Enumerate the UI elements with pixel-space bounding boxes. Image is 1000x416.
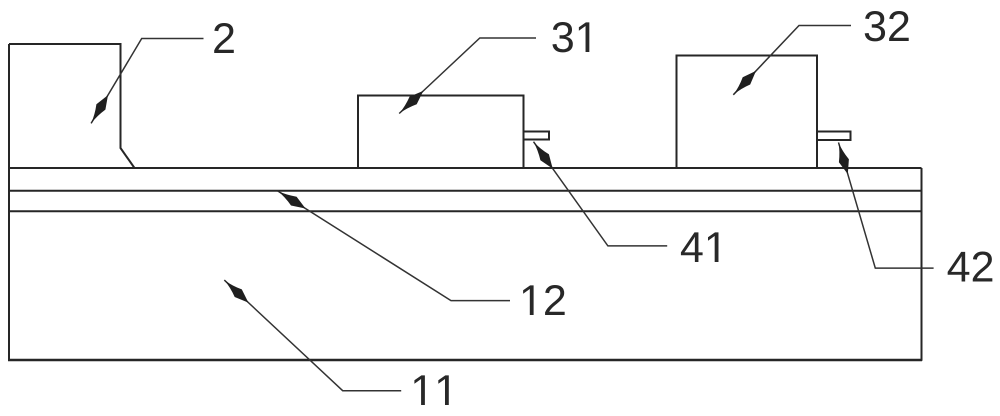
- arrowhead 42: [839, 142, 849, 174]
- tab 42 (electrode foot on right side of block 32): [817, 132, 851, 141]
- arrowhead 32: [733, 71, 756, 95]
- label 41: [681, 232, 703, 262]
- label 31: [552, 22, 572, 52]
- layer 12 middle boundary line: [9, 190, 922, 192]
- arrowhead 41: [534, 142, 553, 169]
- label 12: [523, 285, 533, 315]
- arrowhead 11: [224, 280, 248, 303]
- leader line 32: [733, 26, 851, 95]
- leader line 31: [399, 38, 536, 114]
- leader line 42: [839, 142, 934, 268]
- leader line 2: [91, 39, 203, 124]
- arrowhead 31: [399, 91, 423, 114]
- block 32: [677, 56, 818, 169]
- top surface line of layer stack: [9, 167, 922, 169]
- label 32: [865, 11, 885, 41]
- arrowhead 12: [278, 191, 306, 209]
- substrate right edge: [921, 168, 923, 361]
- substrate left edge: [8, 44, 10, 361]
- layer 12 lower boundary line (top of substrate 11): [9, 210, 922, 212]
- label 2: [214, 23, 234, 53]
- block 2 (left raised layer): [9, 44, 135, 168]
- leader line 11: [224, 280, 401, 391]
- tab 41 (electrode foot on right side of block 31): [524, 132, 550, 140]
- label 11: [414, 375, 424, 405]
- block 31: [358, 96, 524, 169]
- label 42: [948, 252, 970, 282]
- substrate bottom edge: [8, 359, 922, 362]
- arrowhead 2: [91, 95, 108, 123]
- leader line 41: [534, 142, 668, 246]
- leader line 12: [278, 191, 510, 301]
